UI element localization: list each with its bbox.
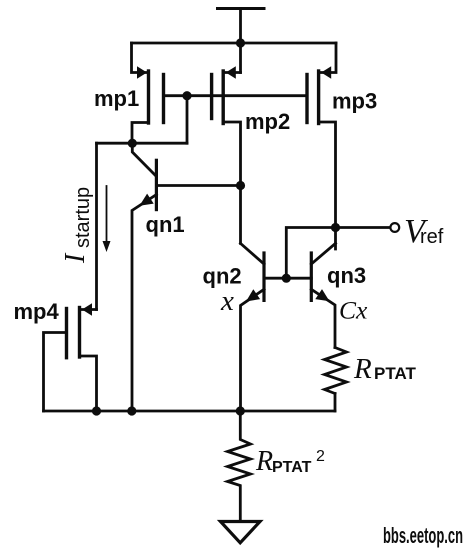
node qn2 emitter junction [236,406,245,415]
transistor qn2 [241,243,265,411]
wire qn2-qn3 base tie [264,277,311,280]
wire RPTAT to rail [334,394,337,412]
svg-text:bbs.eetop.cn: bbs.eetop.cn [383,523,463,548]
svg-text:mp1: mp1 [94,86,139,111]
svg-text:PTAT: PTAT [374,364,416,383]
svg-text:qn1: qn1 [146,212,185,237]
svg-text:x: x [220,285,234,317]
node qn1 base junction [236,181,245,190]
svg-text:mp4: mp4 [14,299,60,324]
node base tie junction [282,274,291,283]
node top rail junction [236,38,245,47]
svg-text:2: 2 [316,448,325,465]
svg-text:mp2: mp2 [245,109,290,134]
transistor mp2 [212,66,241,243]
terminal Vref [390,223,399,232]
svg-text:qn3: qn3 [327,263,366,288]
node Vref junction [331,223,340,232]
resistor RPTAT2 [228,411,251,522]
svg-text:I: I [60,252,91,264]
node mp4 drain junction [92,406,101,415]
wire supply vertical [239,9,242,73]
wire base tie up and right to Vref [286,228,390,279]
transistor qn3 [311,243,335,347]
svg-text:PTAT: PTAT [272,459,312,476]
node qn1 emitter junction [127,406,136,415]
svg-text:R: R [255,446,273,477]
node A junction [128,139,137,148]
node gate bus junction [182,91,191,100]
wire bottom rail [44,410,336,413]
svg-text:Cx: Cx [339,296,368,325]
svg-text:startup: startup [72,187,94,248]
resistor RPTAT [325,348,347,394]
transistor mp1 [132,43,164,143]
svg-text:mp3: mp3 [332,89,377,114]
ground [221,522,261,543]
wire qn1 base to mp2 drain [156,184,240,187]
label Istartup [60,187,94,264]
current arrow Istartup [103,186,111,252]
wire gate bus mp1-mp3 [164,94,308,97]
transistor qn1 [132,143,156,411]
wire top rail [132,42,337,45]
power supply symbol [218,7,265,10]
transistor mp3 [307,43,336,249]
svg-text:ref: ref [420,226,444,248]
wire gate feedback vertical [186,96,189,144]
transistor mp4 [44,303,97,411]
wire node A horizontal [97,142,188,145]
svg-text:R: R [353,353,372,385]
wire startup left vertical [95,143,98,309]
